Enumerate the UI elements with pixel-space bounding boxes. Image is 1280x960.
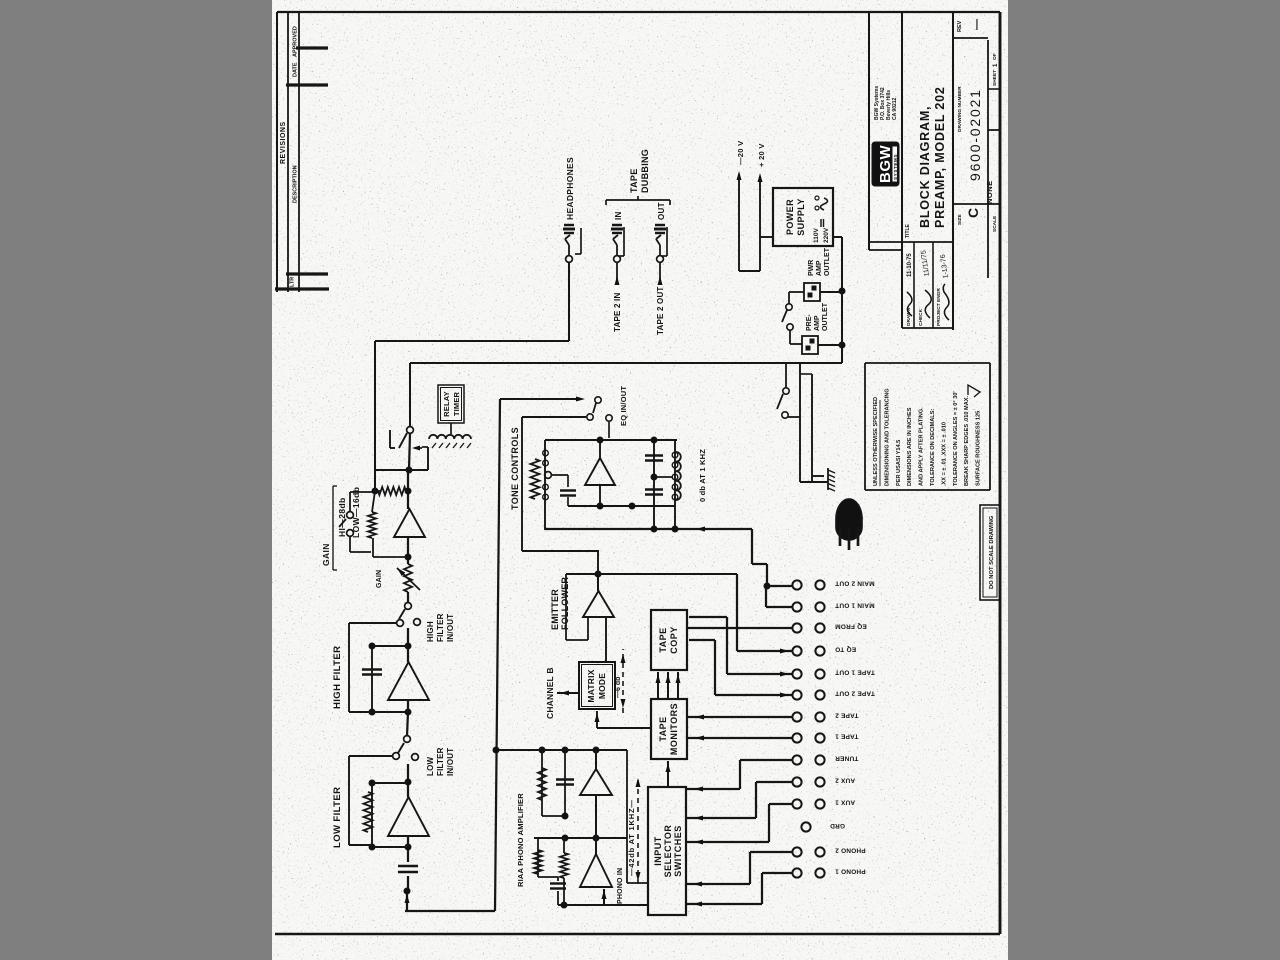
svg-text:GAIN: GAIN [321, 543, 331, 566]
svg-text:—20 V: —20 V [736, 141, 745, 165]
svg-text:TAPE: TAPE [629, 168, 639, 193]
svg-text:.XX = ± .01 .XXX = ± .010: .XX = ± .01 .XXX = ± .010 [941, 422, 947, 486]
svg-text:OUTLET: OUTLET [824, 247, 831, 276]
svg-text:IN/OUT: IN/OUT [446, 748, 455, 776]
svg-text:220V: 220V [823, 227, 830, 243]
svg-text:DRAWING NUMBER: DRAWING NUMBER [957, 86, 963, 132]
svg-text:SYSTEMS: SYSTEMS [893, 154, 898, 180]
svg-text:PREAMP, MODEL 202: PREAMP, MODEL 202 [933, 86, 947, 228]
svg-text:CA 90212: CA 90212 [892, 97, 898, 120]
svg-text:APPROVED: APPROVED [293, 26, 299, 57]
svg-text:AMP: AMP [816, 260, 823, 276]
svg-text:OF: OF [992, 53, 998, 60]
svg-text:11-10-75: 11-10-75 [907, 253, 913, 277]
svg-text:TAPE 1 OUT: TAPE 1 OUT [835, 669, 875, 676]
svg-text:TITLE: TITLE [905, 223, 911, 238]
svg-text:LTR: LTR [290, 277, 296, 287]
svg-text:TAPE 2: TAPE 2 [835, 712, 859, 719]
svg-text:PHONO 2: PHONO 2 [835, 847, 866, 854]
svg-text:LOW—16db: LOW—16db [351, 487, 361, 538]
svg-text:PRE-: PRE- [806, 314, 813, 331]
svg-text:FILTER: FILTER [436, 747, 445, 776]
svg-text:SIZE: SIZE [957, 214, 963, 225]
svg-text:DUBBING: DUBBING [640, 149, 650, 193]
svg-text:—: — [971, 19, 983, 30]
svg-text:EQ TO: EQ TO [835, 646, 856, 653]
svg-text:OUT: OUT [657, 202, 666, 220]
svg-text:TAPE 2 OUT: TAPE 2 OUT [835, 690, 875, 697]
svg-text:TAPE 2 OUT: TAPE 2 OUT [656, 286, 665, 335]
svg-text:TOLERANCE ON DECIMALS:: TOLERANCE ON DECIMALS: [930, 409, 936, 486]
svg-text:PER USASI Y14.5: PER USASI Y14.5 [896, 440, 902, 486]
svg-text:LOW: LOW [426, 756, 435, 776]
svg-text:TAPE 1: TAPE 1 [835, 733, 859, 740]
svg-text:MONITORS: MONITORS [669, 703, 679, 755]
svg-text:TOLERANCE ON ANGLES = ± 0° 30′: TOLERANCE ON ANGLES = ± 0° 30′ [953, 391, 959, 486]
svg-text:MATRIX: MATRIX [586, 669, 596, 702]
svg-text:DIMENSIONING AND TOLERANCING: DIMENSIONING AND TOLERANCING [884, 388, 890, 486]
svg-text:TIMER: TIMER [452, 391, 461, 416]
svg-text:UNLESS OTHERWISE SPECIFIED: UNLESS OTHERWISE SPECIFIED [873, 397, 879, 486]
svg-text:DIMENSIONS ARE IN INCHES: DIMENSIONS ARE IN INCHES [907, 407, 913, 486]
svg-text:POWER: POWER [785, 199, 795, 235]
svg-text:RIAA PHONO AMPLIFIER: RIAA PHONO AMPLIFIER [516, 793, 525, 887]
svg-text:IN: IN [614, 211, 623, 220]
svg-text:TUNER: TUNER [835, 755, 858, 762]
svg-text:BREAK SHARP EDGES .010 MAX.: BREAK SHARP EDGES .010 MAX. [964, 396, 970, 486]
svg-text:BLOCK DIAGRAM,: BLOCK DIAGRAM, [918, 106, 932, 228]
svg-text:PHONO IN: PHONO IN [617, 868, 624, 904]
svg-text:OUTLET: OUTLET [822, 302, 829, 331]
svg-text:HIGH: HIGH [426, 621, 435, 642]
svg-text:SELECTOR: SELECTOR [663, 825, 673, 878]
svg-text:+ 20 V: + 20 V [757, 143, 766, 167]
svg-text:SCALE: SCALE [992, 215, 998, 232]
svg-text:PROJECT ENGR: PROJECT ENGR [936, 288, 942, 326]
svg-text:110V: 110V [813, 228, 820, 243]
svg-text:HIGH FILTER: HIGH FILTER [332, 646, 343, 709]
svg-text:C: C [965, 208, 981, 218]
svg-text:DESCRIPTION: DESCRIPTION [293, 165, 299, 203]
svg-text:CHECK: CHECK [918, 308, 924, 326]
svg-text:FILTER: FILTER [436, 613, 445, 642]
svg-text:DATE: DATE [293, 62, 299, 77]
svg-text:PWR: PWR [808, 260, 815, 276]
svg-text:REV: REV [957, 20, 963, 32]
svg-text:CHANNEL B: CHANNEL B [545, 667, 555, 719]
svg-text:AMP: AMP [814, 315, 821, 331]
svg-text:MAIN 2 OUT: MAIN 2 OUT [835, 580, 875, 587]
svg-text:0 db AT 1 KHZ: 0 db AT 1 KHZ [698, 449, 707, 502]
svg-text:9600-02021: 9600-02021 [967, 88, 983, 181]
svg-text:GRD: GRD [830, 822, 845, 829]
svg-text:IN/OUT: IN/OUT [446, 614, 455, 642]
svg-text:MODE: MODE [597, 673, 607, 699]
svg-text:EQ IN/OUT: EQ IN/OUT [619, 386, 628, 426]
svg-text:MAIN 1 OUT: MAIN 1 OUT [835, 602, 875, 609]
svg-text:AUX 2: AUX 2 [835, 777, 855, 784]
svg-text:DO NOT SCALE DRAWING: DO NOT SCALE DRAWING [989, 515, 995, 589]
svg-text:HI—28db: HI—28db [337, 497, 347, 537]
svg-text:COPY: COPY [669, 626, 679, 654]
svg-text:TONE CONTROLS: TONE CONTROLS [510, 427, 520, 510]
svg-text:NONE: NONE [985, 180, 994, 204]
svg-text:EMITTER: EMITTER [550, 589, 560, 630]
svg-text:AUX 1: AUX 1 [835, 799, 855, 806]
svg-text:TAPE: TAPE [658, 716, 668, 741]
svg-text:TAPE: TAPE [658, 627, 668, 652]
svg-text:EQ FROM: EQ FROM [835, 623, 867, 630]
svg-text:GAIN: GAIN [376, 570, 383, 588]
svg-text:PHONO 1: PHONO 1 [835, 868, 866, 875]
svg-text:RELAY: RELAY [442, 391, 451, 417]
svg-text:—6 db: —6 db [615, 677, 622, 698]
svg-text:—42db AT 1KHZ—: —42db AT 1KHZ— [627, 799, 636, 876]
svg-text:HEADPHONES: HEADPHONES [565, 157, 575, 220]
svg-text:AND APPLY AFTER PLATING.: AND APPLY AFTER PLATING. [919, 407, 925, 486]
svg-text:FOLLOWER: FOLLOWER [560, 577, 570, 630]
svg-text:SHEET: SHEET [992, 70, 998, 86]
svg-text:INPUT: INPUT [653, 836, 663, 866]
svg-text:TAPE 2 IN: TAPE 2 IN [613, 293, 622, 332]
svg-text:SWITCHES: SWITCHES [673, 825, 683, 877]
svg-text:LOW FILTER: LOW FILTER [332, 787, 343, 848]
svg-text:SURFACE ROUGHNESS 125: SURFACE ROUGHNESS 125 [976, 411, 982, 486]
svg-text:BGW: BGW [877, 145, 894, 184]
svg-text:REVISIONS: REVISIONS [280, 121, 287, 164]
svg-text:SUPPLY: SUPPLY [796, 198, 806, 236]
